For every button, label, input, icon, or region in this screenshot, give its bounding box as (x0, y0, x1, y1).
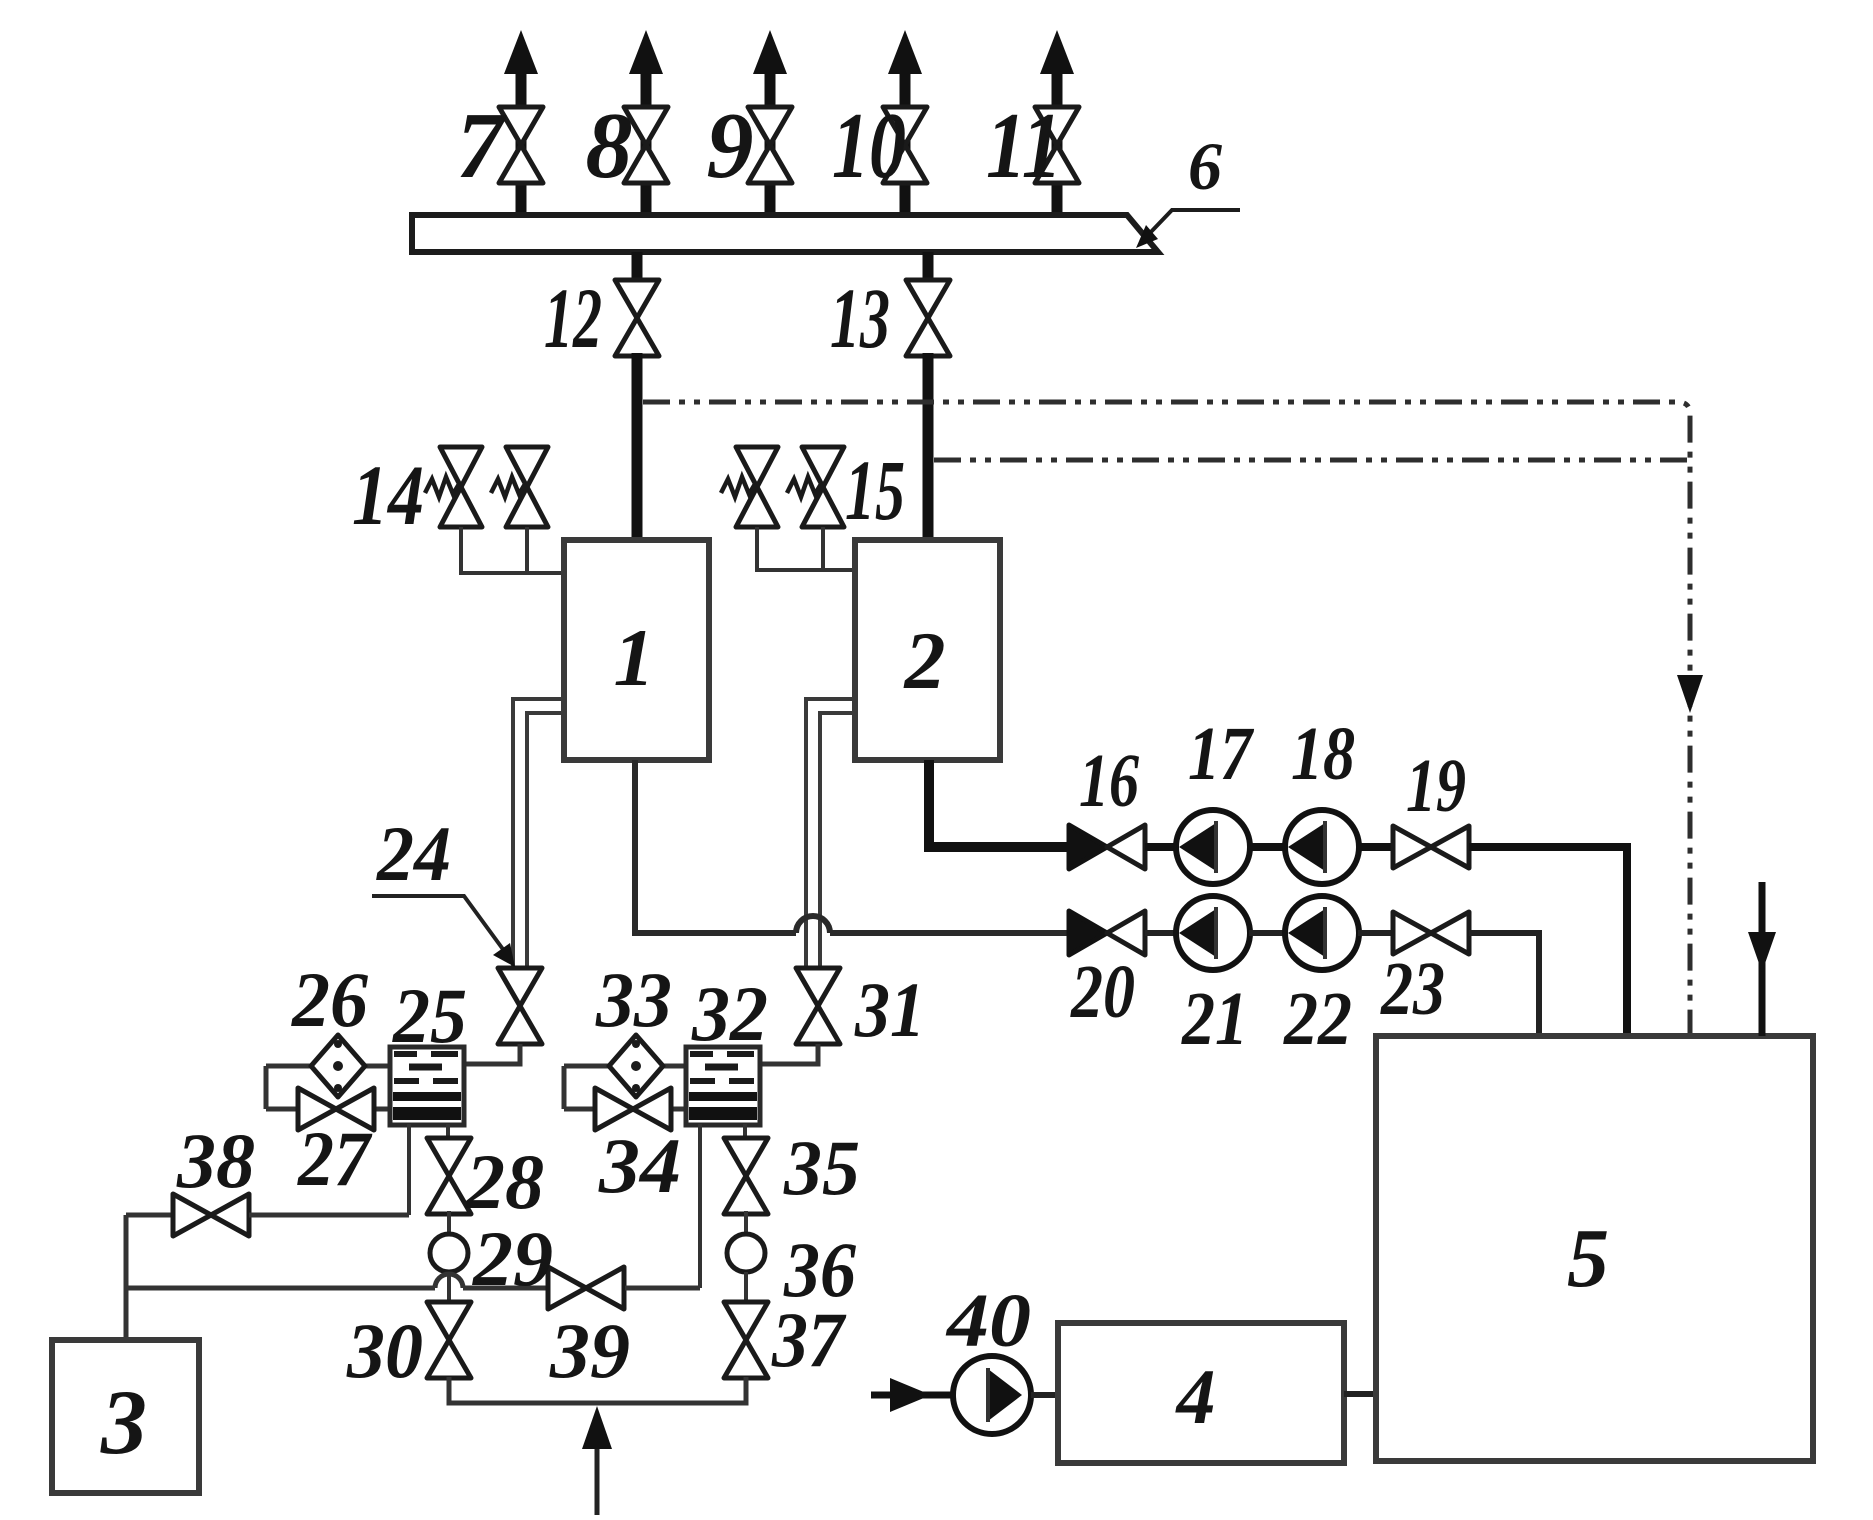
wire: pipe tank 3 to valve 38 (126, 1213, 173, 1218)
wire: outer feed pipe from boiler 1 to valve 24 (513, 699, 564, 966)
leader arrow of label 24 (372, 896, 505, 952)
svg-text:13: 13 (830, 270, 890, 366)
svg-text:21: 21 (1181, 977, 1248, 1061)
wire: pipe pump 17 to pump 18 (1249, 843, 1287, 851)
wire: bypass left stub (264, 1066, 269, 1109)
wire: pipe from valve 23 into unit 5 (1469, 933, 1539, 1036)
wire: riser stem of outlet 11 (1052, 72, 1063, 215)
pump 18 (1285, 810, 1359, 884)
tank 3 (52, 1340, 199, 1493)
wire: pipe to valve 20 (830, 930, 1069, 936)
valve 9 (748, 107, 792, 183)
wire: riser stem of outlet 10 (900, 72, 911, 215)
svg-text:33: 33 (595, 956, 672, 1043)
svg-text:10: 10 (832, 94, 906, 198)
arrowhead on dash-dot line (1677, 675, 1703, 713)
wire: bottom supply main (449, 1377, 746, 1403)
wire: safety valve group 15 to boiler 2 (757, 527, 855, 570)
svg-text:20: 20 (1070, 950, 1135, 1034)
wire: inner feed pipe from boiler 1 to valve 24 (527, 713, 564, 966)
wire: bypass loop lower line through valve 27 (266, 1107, 390, 1112)
wire: pipe pump 22 to valve 23 (1358, 930, 1394, 936)
safety valve 14a (425, 447, 482, 527)
inlet arrow into unit 5 (1748, 932, 1776, 972)
wire: pipe from valve 19 into unit 5 (1469, 847, 1627, 1036)
wire: meter 25 left drain port (407, 1124, 411, 1215)
svg-text:24: 24 (376, 810, 451, 897)
wire: pipe from valve 13 into boiler 2 (923, 353, 934, 551)
wire: riser stem of outlet 8 (641, 72, 652, 215)
wire: cold water main from tank 3 line (126, 1286, 435, 1291)
svg-text:8: 8 (586, 94, 633, 198)
wire: main from valve 39 up to meter 32 (625, 1286, 700, 1291)
filter 33 (609, 1035, 663, 1097)
svg-text:4: 4 (1175, 1353, 1216, 1440)
valve 37 (724, 1302, 768, 1378)
wire: pipe valve 20 to pump 21 (1145, 930, 1178, 936)
svg-text:30: 30 (346, 1307, 423, 1394)
wire: drop pipe from header to valve 12 (632, 252, 643, 283)
svg-text:35: 35 (783, 1124, 860, 1211)
wire: bypass loop upper line through filter 33 (564, 1064, 688, 1069)
svg-text:2: 2 (904, 615, 946, 706)
wire: meter 32 left port down to bottom main (698, 1124, 702, 1288)
wire: main to valve 39 (463, 1286, 547, 1291)
wire: pipe from tank 3 up to valve 38 (124, 1215, 129, 1340)
water meter 32 (686, 1047, 760, 1125)
wire: top inlet into unit 5 (1759, 882, 1766, 1036)
svg-text:11: 11 (986, 94, 1062, 198)
wire: discharge arrow above valve 11 (1040, 30, 1074, 74)
svg-text:39: 39 (549, 1307, 630, 1394)
valve 12 (615, 280, 659, 356)
wire: pipe valve 38 to meter 25 drain (249, 1213, 409, 1218)
wire: discharge arrow above valve 10 (888, 30, 922, 74)
safety valve 14b (491, 447, 548, 527)
wire: pipe valve 16 to pump 17 (1145, 843, 1178, 851)
wire: discharge arrow above valve 7 (504, 30, 538, 74)
pump 40 (953, 1356, 1031, 1434)
unit 4 (1058, 1323, 1344, 1463)
wire: bypass loop lower line through valve 34 (564, 1107, 688, 1112)
svg-text:32: 32 (691, 970, 768, 1057)
valve 8 (624, 107, 668, 183)
valve 39 (548, 1267, 624, 1309)
wire: pipe pump 18 to valve 19 (1358, 843, 1394, 851)
wire: supply inlet riser (595, 1449, 600, 1515)
pump 21 (1176, 896, 1250, 970)
svg-text:17: 17 (1188, 712, 1255, 796)
wire: hop over boiler-2 feed pipes (796, 916, 830, 933)
leader arrow of label 6 (1148, 210, 1240, 235)
valve 27 (298, 1088, 374, 1130)
valve 23 (1393, 912, 1469, 954)
wire: pump 40 to unit 4 (1031, 1392, 1058, 1398)
svg-text:1: 1 (614, 612, 655, 703)
wire: inner feed pipe from boiler 2 to valve 31 (820, 713, 855, 966)
steam header 6 (412, 215, 1158, 252)
inlet arrow to pump 40 (871, 1392, 951, 1399)
wire: stub gauge 36 to valve 37 (744, 1272, 748, 1305)
svg-text:40: 40 (945, 1279, 1031, 1363)
svg-text:14: 14 (352, 447, 424, 543)
safety valve 15a (721, 447, 778, 527)
wire: outer feed pipe from boiler 2 to valve 31 (806, 699, 855, 966)
wire: meter 25 right port to valve 28 (446, 1124, 450, 1140)
wire: safety valve group 14 to boiler 1 (461, 527, 564, 573)
wire: elbow valve 24 to meter 25 (464, 1044, 520, 1064)
svg-text:19: 19 (1406, 744, 1466, 828)
boiler 1 (564, 540, 709, 760)
svg-text:3: 3 (100, 1371, 147, 1473)
valve 19 (1393, 826, 1469, 868)
wire: riser stem of outlet 9 (765, 72, 776, 215)
pump 17 (1176, 810, 1250, 884)
valve 13 (906, 280, 950, 356)
pump 22 (1285, 896, 1359, 970)
wire: elbow valve 31 to meter 32 (758, 1044, 818, 1064)
svg-text:7: 7 (457, 94, 508, 198)
wire: bypass loop upper line through filter 26 (266, 1064, 390, 1069)
wire: unit 4 to unit 5 (1344, 1391, 1376, 1397)
valve 35 (724, 1138, 768, 1214)
valve 10 (883, 107, 927, 183)
svg-text:34: 34 (598, 1122, 681, 1209)
svg-text:5: 5 (1567, 1212, 1609, 1305)
wire: drop pipe from header to valve 13 (923, 252, 934, 283)
valve 20 (1069, 911, 1145, 955)
svg-text:16: 16 (1079, 739, 1139, 823)
svg-text:26: 26 (291, 956, 368, 1043)
wire: meter 32 right port to valve 35 (743, 1124, 747, 1140)
valve 38 (173, 1194, 249, 1236)
valve 16 (1069, 825, 1145, 869)
wire: hot water pipe from boiler 2 bottom (929, 760, 1069, 847)
svg-text:27: 27 (297, 1115, 373, 1202)
supply inlet arrow (582, 1406, 612, 1449)
svg-text:9: 9 (707, 94, 754, 198)
wire: pipe pump 21 to pump 22 (1249, 930, 1287, 936)
wire: dash-dot impulse line from pipe 13 (934, 458, 1688, 463)
wire: stub valve 35 to gauge 36 (744, 1211, 748, 1235)
valve 7 (499, 107, 543, 183)
wire: riser stem of outlet 7 (516, 72, 527, 215)
boiler 2 (855, 540, 1000, 760)
safety valve 15b (787, 447, 844, 527)
wire: stub gauge 29 to valve 30 (447, 1272, 451, 1305)
wire: pipe from valve 12 into boiler 1 (632, 353, 643, 551)
gauge 36 (727, 1234, 765, 1272)
filter 26 (311, 1035, 365, 1097)
gauge 29 (430, 1234, 468, 1272)
wire: stub valve 28 to gauge 29 (447, 1211, 451, 1235)
valve 11 (1035, 107, 1079, 183)
svg-text:38: 38 (176, 1117, 255, 1204)
wire: discharge arrow above valve 8 (629, 30, 663, 74)
valve 30 (427, 1302, 471, 1378)
svg-text:18: 18 (1291, 712, 1355, 796)
unit 5 (1376, 1036, 1813, 1461)
wire: hop over valve 28-30 column (435, 1274, 463, 1288)
valve 31 (796, 968, 840, 1044)
svg-text:25: 25 (392, 972, 467, 1059)
wire: blowdown pipe from boiler 1 bottom (635, 760, 796, 933)
wire: bypass left stub 33 (562, 1066, 567, 1109)
svg-text:6: 6 (1188, 128, 1222, 204)
valve 34 (595, 1088, 671, 1130)
svg-text:31: 31 (854, 966, 925, 1053)
valve 24 (498, 968, 542, 1044)
svg-text:37: 37 (771, 1296, 847, 1383)
svg-text:29: 29 (472, 1215, 553, 1302)
svg-text:28: 28 (465, 1138, 544, 1225)
valve 28 (427, 1138, 471, 1214)
svg-text:12: 12 (544, 270, 602, 366)
svg-text:22: 22 (1283, 977, 1352, 1061)
wire: dash-dot impulse line from pipe 12 to unit 5 (643, 402, 1690, 1036)
svg-text:23: 23 (1380, 947, 1445, 1031)
water meter 25 (390, 1047, 464, 1125)
wire: discharge arrow above valve 9 (753, 30, 787, 74)
svg-text:15: 15 (845, 442, 905, 538)
